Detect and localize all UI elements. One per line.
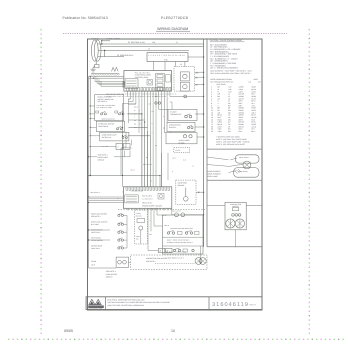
door lock motor box [116, 257, 128, 267]
svg-text:P1 PWR: P1 PWR [92, 38, 100, 41]
connector P7 [123, 144, 130, 150]
probe stem [185, 188, 187, 197]
footer logo [89, 299, 101, 304]
svg-text:NOTE 3: SEE SERVICE DATA SHEET: NOTE 3: SEE SERVICE DATA SHEET [216, 143, 245, 146]
svg-text:10: 10 [171, 329, 175, 333]
wire fan switch to border [195, 126, 204, 128]
wire stub into elements 2 [207, 165, 229, 167]
temperature probe box (dashed) [176, 180, 196, 204]
lower-left component symbols [118, 214, 120, 216]
svg-text:WIRING DIAGRAM: WIRING DIAGRAM [157, 27, 188, 31]
hatched terminals [235, 169, 242, 174]
lower right control box [163, 215, 204, 254]
oven lamp 1 [183, 135, 186, 138]
svg-text:SEE NOTE 4: SEE NOTE 4 [106, 270, 116, 273]
wire inside lower box [200, 246, 202, 263]
inline connector circle [184, 95, 187, 98]
connector circle A [175, 213, 179, 217]
wire drop [101, 41, 103, 44]
svg-text:CIRCUIT: CIRCUIT [98, 159, 105, 162]
chassis hatch bar [91, 74, 120, 76]
wire L1A parallel [101, 46, 204, 48]
wire to hi-limit [159, 108, 168, 110]
EOC left edge pins [123, 81, 125, 82]
wire connectors to border [185, 214, 204, 216]
terminal 3 [238, 214, 241, 217]
svg-text:1 2 3 4 5 6 7 8 9 10 11 12 13: 1 2 3 4 5 6 7 8 9 10 11 12 13 14 [148, 54, 185, 57]
svg-text:CO.: CO. [258, 81, 262, 84]
svg-text:THERMOSTAT: THERMOSTAT [170, 113, 181, 116]
wire jumper [102, 40, 110, 42]
wire hi-limit to border [195, 113, 204, 115]
EOC bottom pin row [127, 87, 129, 91]
latch switch contacts [96, 111, 99, 113]
extra vertical wires center [138, 91, 140, 133]
svg-text:(SEE DWG): (SEE DWG) [217, 83, 227, 86]
chassis ground symbol [95, 64, 99, 67]
connector J7 [116, 144, 123, 150]
svg-text:CIRCUIT: CIRCUIT [106, 275, 113, 278]
svg-text:P3 J3: P3 J3 [176, 149, 180, 152]
wire N (L1A) to right border [98, 43, 204, 45]
footer divider 2 [208, 297, 210, 310]
bake element [234, 168, 259, 178]
legend box bottom border [207, 148, 262, 150]
fan switch contact a [187, 127, 189, 129]
svg-text:REV A: REV A [250, 304, 257, 307]
wire bus drop [159, 176, 161, 187]
latch motor circle [139, 226, 143, 230]
wire to right border [170, 95, 204, 97]
dashed rule [63, 33, 287, 35]
relay K1 [180, 72, 189, 81]
extra horizontal connectors [126, 147, 132, 149]
wire P11 drop 1 [152, 62, 154, 71]
svg-text:SELF-CLEAN HARNESS LOW TEMP +: SELF-CLEAN HARNESS LOW TEMP + SEE NOTE 2 [210, 72, 250, 75]
pointer line 2 [229, 171, 237, 173]
svg-text:GN-Y + GREEN-YELLOW(VERT): GN-Y + GREEN-YELLOW(VERT) [210, 67, 238, 70]
wire left vertical bus 2 [89, 76, 91, 175]
sheet border [88, 39, 263, 310]
svg-text:CONTROL (EOC): CONTROL (EOC) [135, 76, 149, 79]
svg-text:SUPPLY CORD: SUPPLY CORD [107, 38, 121, 41]
relay K2 [180, 82, 189, 91]
wires into power supply board [89, 196, 124, 198]
pins on top edge of power board [126, 187, 128, 190]
divider [163, 245, 204, 247]
connector P8 [158, 248, 164, 252]
electronic oven control board [124, 71, 172, 92]
power supply board [123, 187, 171, 209]
wire relay to border 2 [195, 76, 204, 78]
EOC left header J1 [125, 79, 138, 89]
latch assembly (dashed) [135, 210, 148, 244]
legend panel left border [206, 39, 208, 247]
wire from note [114, 156, 130, 158]
wire P11 drop 2 [164, 62, 166, 71]
probe bulb [184, 197, 189, 202]
relay box (dashed) [174, 67, 195, 91]
oven light box [166, 133, 197, 144]
dashed separator [118, 209, 205, 211]
small box [137, 219, 145, 223]
EOC relay column [156, 74, 165, 92]
wire into fan box right [246, 205, 262, 207]
wire to ground [92, 68, 94, 69]
inner schematic right border [203, 39, 205, 247]
switch contact [117, 128, 119, 130]
light switch connector box [100, 132, 129, 141]
svg-text:316046119: 316046119 [212, 302, 249, 308]
connector circle B [181, 213, 185, 217]
wire bottom left [89, 267, 117, 269]
svg-text:09/05: 09/05 [64, 329, 73, 333]
fan winding 2 [235, 219, 244, 228]
grounding strap [112, 67, 119, 71]
terminal 1 [232, 214, 235, 217]
svg-text:P1 NEUTRAL (L1A): P1 NEUTRAL (L1A) [128, 41, 145, 44]
wire long vertical 2 [120, 148, 122, 176]
svg-text:POWER SUPPLY BOARD: POWER SUPPLY BOARD [142, 205, 163, 208]
svg-text:P1 GROUND GN-Y: P1 GROUND GN-Y [117, 54, 134, 57]
svg-text:PLEB27T9DCB: PLEB27T9DCB [161, 16, 189, 20]
junction dots scattered [122, 113, 123, 114]
terminal 2 [235, 214, 238, 217]
oven lamp circle [243, 161, 251, 169]
wire relay to border 1 [195, 71, 204, 73]
svg-text:L1: L1 [148, 48, 150, 51]
elements box bottom border [207, 179, 262, 181]
perforation dots right [309, 29, 310, 30]
door light switch box [96, 121, 124, 131]
svg-text:Publication No. 5995447413: Publication No. 5995447413 [63, 16, 108, 20]
svg-text:20: 20 [211, 130, 213, 133]
verticals from power board to lower boxes [147, 208, 149, 250]
wires door boxes to center verticals [128, 98, 130, 100]
dashed connector box [174, 148, 190, 153]
fan capacitor [233, 208, 239, 211]
wire staircase into EOC [94, 76, 96, 82]
svg-text:SW: SW [228, 130, 231, 133]
door latch assembly box [95, 95, 124, 121]
wire long vertical 1 [122, 104, 124, 187]
hi-limit thermostat box [168, 109, 197, 120]
speed switch contact row [167, 232, 169, 234]
wire main horizontal bus [88, 175, 161, 177]
svg-text:(2) 40W: (2) 40W [179, 141, 185, 144]
cooling fan motor outline [225, 202, 246, 230]
relay contact row [173, 249, 175, 251]
svg-text:LOCK MOTOR: LOCK MOTOR [106, 273, 118, 276]
wire to P8 [148, 250, 158, 252]
fan box bottom border [207, 246, 262, 248]
wire relay box up [184, 62, 186, 67]
wire drop [104, 51, 106, 57]
power supply cord P1 [91, 40, 98, 61]
pointer line 1 [229, 164, 243, 166]
wire lower-left vertical [126, 215, 128, 248]
connector J8 [166, 248, 172, 252]
inline connector circles on verticals [155, 102, 157, 104]
svg-text:SWITCH: SWITCH [169, 126, 176, 129]
pin stubs under power board [127, 208, 129, 210]
wire into fan box left [207, 205, 225, 207]
relay contact sub-box [125, 195, 139, 203]
wire P11 to border [188, 56, 204, 58]
relay sub-box [158, 194, 164, 200]
footer title block [86, 297, 262, 310]
wire probe to border [196, 191, 204, 193]
wire relay to border 3 [195, 83, 204, 85]
convection fan box (dashed) [131, 255, 207, 270]
wire fan cluster down [235, 230, 237, 247]
wire drops from EOC pins [127, 91, 129, 96]
dashed wire [155, 263, 195, 265]
svg-text:J9 W: J9 W [91, 264, 95, 267]
svg-text:CAUTION + COLOR CODING LEGEND: CAUTION + COLOR CODING LEGEND [210, 39, 243, 42]
wire left vertical bus 1 [88, 76, 90, 268]
stub between boxes [170, 131, 172, 134]
wire lamps to border [197, 136, 204, 138]
svg-text:ELECTROLUX HOME: ELECTROLUX HOME [89, 308, 103, 310]
wire L1 [98, 50, 189, 52]
footer divider 1 [105, 297, 107, 310]
svg-text:L1: L1 [180, 63, 182, 66]
wire cord to ground [95, 61, 97, 64]
broil element [235, 155, 259, 163]
fan winding 1 [226, 219, 235, 228]
wire P11 drop 3 [174, 62, 176, 67]
cooling fan switch box [167, 122, 195, 131]
perforation dots bottom [8, 339, 9, 340]
divider [163, 236, 204, 238]
svg-text:P11: P11 [164, 58, 167, 61]
wires left boxes to bus [90, 105, 94, 107]
svg-text:OVEN LAMP: OVEN LAMP [208, 175, 219, 178]
wire L2 to EOC area [98, 56, 124, 58]
wire bus left [89, 75, 124, 77]
oven lamp 2 [189, 135, 192, 138]
wire stub into elements 1 [207, 157, 229, 160]
connector strip P11 [147, 53, 188, 62]
EOC inner squares [147, 80, 153, 86]
wire stub to hi-limit top [171, 102, 173, 109]
wire board to connectors [171, 208, 173, 215]
wire to conv fan box [129, 261, 131, 263]
pointer line 3 [230, 158, 237, 160]
perforation dots left [40, 29, 41, 30]
convection fan motor [195, 258, 202, 265]
